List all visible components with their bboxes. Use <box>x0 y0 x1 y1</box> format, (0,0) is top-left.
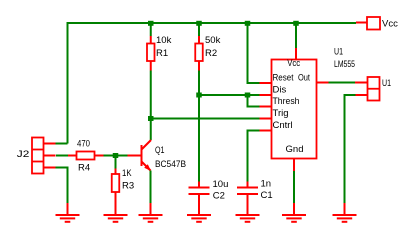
wire rail to R2 <box>198 23 200 36</box>
connector U1 header <box>355 77 380 101</box>
svg-text:Q1: Q1 <box>155 145 165 156</box>
resistor R3 <box>112 169 120 216</box>
ground below J2 pin3 <box>56 203 80 222</box>
svg-text:R2: R2 <box>205 48 217 59</box>
svg-text:10u: 10u <box>213 179 229 190</box>
svg-text:R3: R3 <box>122 181 134 192</box>
transistor Q1 <box>128 140 152 171</box>
svg-text:Reset: Reset <box>273 72 294 83</box>
node junction on rail above U1 Vcc pin <box>293 21 299 26</box>
pin Thresh <box>260 106 272 108</box>
wire J2 pin2 to R4 <box>56 155 68 157</box>
svg-text:Dis: Dis <box>273 84 287 95</box>
resistor R1 <box>147 36 155 71</box>
svg-text:Thresh: Thresh <box>273 96 300 107</box>
svg-text:C2: C2 <box>213 191 225 202</box>
pin Vcc (top) <box>295 48 297 60</box>
node junction R4/R3/base <box>113 153 119 158</box>
wire Out to U1 header <box>329 82 356 84</box>
transistor Q1 emitter arrowhead <box>144 164 151 171</box>
svg-text:Trig: Trig <box>273 108 289 119</box>
wire rail down to Reset pin <box>248 23 260 83</box>
ground below R3 <box>104 215 128 222</box>
svg-text:Gnd: Gnd <box>286 144 304 155</box>
svg-text:1n: 1n <box>261 179 272 190</box>
node junction R1/Trig <box>148 116 154 121</box>
svg-text:LM555: LM555 <box>334 59 355 70</box>
svg-text:Out: Out <box>298 72 310 83</box>
pin Out <box>317 82 329 84</box>
wire junction to Dis pin <box>199 94 260 96</box>
wire R4 to base node <box>104 155 128 157</box>
wire 555 Gnd pin to ground <box>293 171 295 203</box>
svg-text:Cntrl: Cntrl <box>273 120 293 131</box>
connector J2 <box>32 138 56 174</box>
svg-text:10k: 10k <box>156 35 172 46</box>
pin Gnd (bottom) <box>293 159 295 172</box>
node junction on rail above R2 <box>196 21 202 26</box>
capacitor C2 <box>189 182 210 216</box>
svg-text:BC547B: BC547B <box>155 159 186 170</box>
svg-text:Vcc: Vcc <box>382 19 398 30</box>
op-amp U1 LM555 box <box>272 60 317 159</box>
node junction on rail above Reset drop <box>245 21 251 26</box>
wire top Vcc rail <box>67 22 357 24</box>
svg-text:50k: 50k <box>205 35 221 46</box>
wire Q1 emitter to ground <box>150 171 152 204</box>
wire J2 pin3 to ground <box>56 168 68 204</box>
wire J2 pin1 to left rail <box>56 143 68 145</box>
wire U1 header pin2 down to ground <box>345 95 356 203</box>
pin Cntrl <box>260 130 272 132</box>
wire rail down to U1 Vcc pin (green part) <box>295 23 297 48</box>
svg-text:1K: 1K <box>122 168 132 179</box>
wire rail to R1 <box>150 23 152 36</box>
node junction on rail above R1 <box>148 21 154 26</box>
pin Dis <box>260 94 272 96</box>
wire R1 bottom to Q1 collector <box>150 71 152 141</box>
power Vcc terminal top right <box>356 17 380 30</box>
node junction Dis/Thresh <box>245 93 251 98</box>
svg-text:R1: R1 <box>156 48 168 59</box>
wire Cntrl pin to C1 <box>248 131 260 182</box>
ground below 555 Gnd <box>282 203 306 222</box>
resistor R2 <box>195 36 203 71</box>
resistor R4 <box>68 152 104 160</box>
capacitor C1 <box>237 182 258 216</box>
svg-text:U1: U1 <box>382 78 391 89</box>
ground below U1 header pin2 <box>333 203 357 222</box>
node junction R2/Dis <box>196 93 202 98</box>
ground below C2 <box>187 215 211 222</box>
wire junction down to Thresh pin <box>248 95 260 107</box>
svg-text:J2: J2 <box>17 149 30 160</box>
pin Trig <box>260 118 272 120</box>
wire R2 bottom down to C2 <box>198 71 200 182</box>
svg-text:C1: C1 <box>261 190 273 201</box>
wire junction down to R3 <box>115 156 117 169</box>
svg-text:R4: R4 <box>78 163 90 174</box>
wire left vertical from Vcc rail to J2 pin1 <box>67 22 69 144</box>
ground below Q1 emitter <box>139 203 163 222</box>
wire junction to Trig pin <box>151 118 260 120</box>
ground below C1 <box>236 215 260 222</box>
svg-text:470: 470 <box>77 139 90 150</box>
svg-text:Vcc: Vcc <box>287 58 300 69</box>
pin Reset <box>260 82 272 84</box>
svg-text:U1: U1 <box>334 47 343 58</box>
